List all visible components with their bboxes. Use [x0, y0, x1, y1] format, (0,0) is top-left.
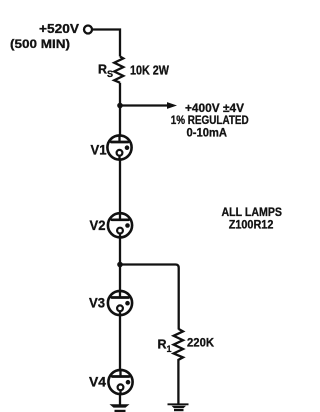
- wire branch to R1: [120, 265, 179, 330]
- lamp V1: [107, 134, 131, 160]
- ground under R1: [168, 404, 189, 411]
- input terminal: [84, 26, 92, 34]
- svg-text:V2: V2: [90, 218, 106, 233]
- svg-text:V1: V1: [91, 143, 107, 158]
- lamp V2: [108, 212, 132, 238]
- resistor R1: [174, 329, 183, 404]
- node junction at regulated output: [117, 103, 123, 109]
- lamp V3: [108, 290, 132, 316]
- svg-text:220K: 220K: [187, 336, 214, 350]
- wire main bus: [119, 83, 121, 405]
- svg-text:10K 2W: 10K 2W: [130, 64, 169, 78]
- svg-text:V4: V4: [89, 374, 107, 389]
- svg-text:V3: V3: [89, 296, 105, 311]
- svg-text:(500 MIN): (500 MIN): [10, 37, 70, 51]
- svg-text:0-10mA: 0-10mA: [187, 126, 228, 140]
- wire from terminal to bus: [92, 30, 120, 57]
- svg-text:Z100R12: Z100R12: [229, 217, 274, 231]
- node junction to R1 branch: [117, 262, 123, 268]
- svg-text:+520V: +520V: [39, 22, 80, 36]
- resistor RS: [114, 57, 123, 83]
- arrow to output label: [120, 104, 167, 106]
- ground under V4: [110, 404, 130, 412]
- lamp V4: [108, 369, 132, 395]
